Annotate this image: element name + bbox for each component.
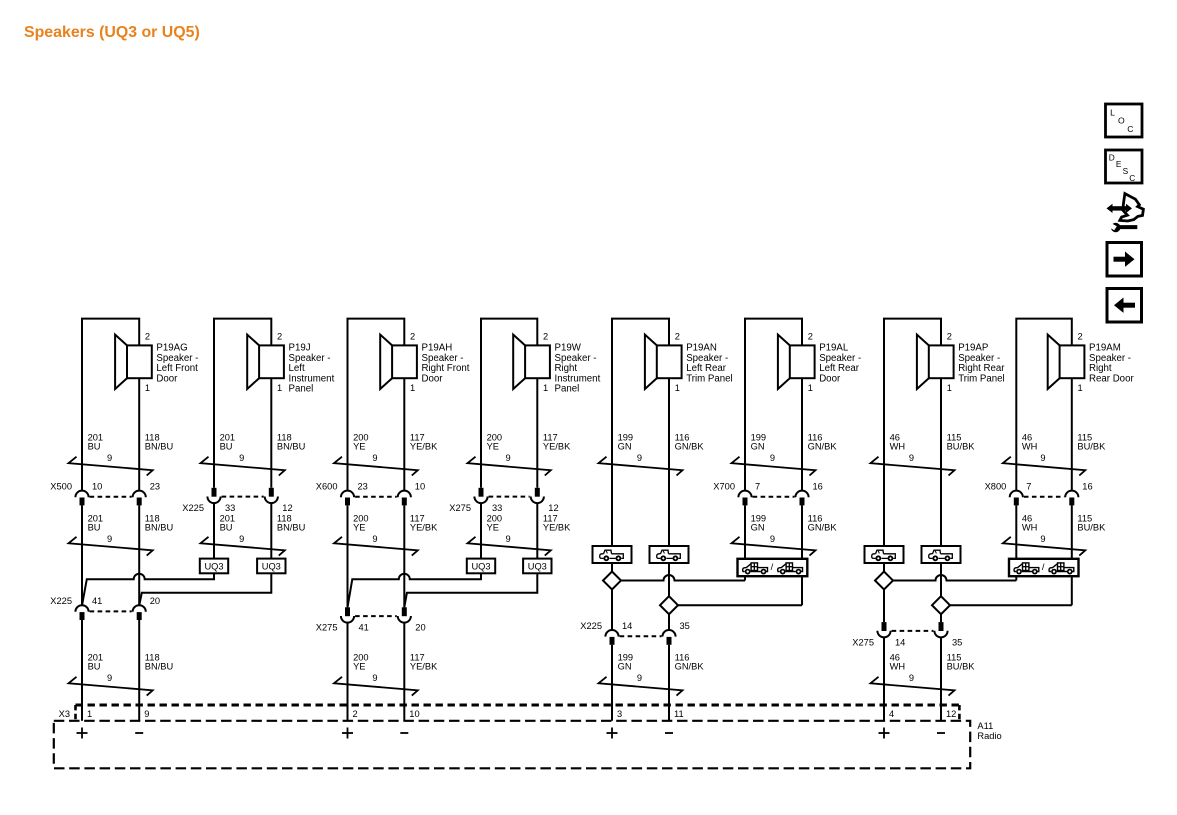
wire 117 YE/BK: P19AH - lead (pin 1)	[403, 378, 405, 491]
polarity +	[607, 728, 618, 739]
wire 46 WH: P19AM + lead (pin 2)	[1016, 319, 1072, 491]
svg-text:UQ3: UQ3	[204, 561, 223, 571]
svg-text:Radio: Radio	[977, 731, 1001, 741]
twisted pair marker 9	[334, 677, 418, 696]
splice (diamond)	[932, 596, 950, 614]
wire labels 201 BU / 118 BN/BU (pair P19J)	[220, 432, 306, 463]
svg-text:9: 9	[909, 453, 914, 463]
wire 116 GN/BK: P19AN - lead (pin 1)	[668, 378, 670, 546]
svg-text:9: 9	[107, 534, 112, 544]
icon: forward arrow box	[1107, 243, 1142, 277]
wire: splice to P19AM + lead (hop over 115 wire)	[893, 575, 1016, 581]
svg-text:YE/BK: YE/BK	[410, 662, 438, 672]
svg-text:9: 9	[372, 534, 377, 544]
twisted pair marker 9 (P19AM)	[1003, 457, 1086, 476]
svg-text:2: 2	[808, 331, 813, 341]
connector X600 pins 23/10	[316, 482, 425, 506]
svg-text:33: 33	[492, 503, 502, 513]
svg-text:BU: BU	[88, 523, 101, 533]
svg-text:9: 9	[637, 673, 642, 683]
title	[24, 24, 200, 41]
twisted pair marker 9	[468, 537, 551, 556]
svg-text:2: 2	[1078, 331, 1083, 341]
twisted pair marker 9 (P19AP)	[871, 457, 955, 476]
svg-text:9: 9	[506, 453, 511, 463]
icon DESC box	[1106, 150, 1143, 183]
twisted pair marker 9 (P19J)	[201, 457, 285, 476]
svg-text:10: 10	[92, 482, 102, 492]
wire segment: truck box to splice	[611, 563, 613, 572]
splice (diamond)	[660, 596, 678, 614]
svg-text:2: 2	[543, 331, 548, 341]
twisted pair marker 9 (P19AG)	[69, 457, 153, 476]
inline connector X3 (dotted line)	[59, 705, 960, 720]
svg-text:X275: X275	[449, 503, 471, 513]
svg-text:12: 12	[946, 709, 956, 719]
twisted pair marker 9 (P19AN)	[599, 457, 683, 476]
svg-text:X275: X275	[316, 623, 338, 633]
wire: UQ3 output to X275 pin 41 (hop over 117 wire)	[348, 573, 482, 607]
wire 115 BU/BK to radio pin 12	[940, 637, 942, 721]
speaker P19W (Speaker - Right Instrument Panel)	[513, 331, 600, 394]
svg-text:YE/BK: YE/BK	[543, 442, 571, 452]
svg-text:YE/BK: YE/BK	[543, 523, 571, 533]
svg-text:BU: BU	[220, 523, 233, 533]
svg-text:2: 2	[277, 331, 282, 341]
svg-text:9: 9	[770, 534, 775, 544]
wire labels 201 BU / 118 BN/BU row2 (pair a)	[88, 513, 174, 544]
svg-text:S: S	[1123, 166, 1129, 176]
connector X275 pins 41/20	[316, 607, 426, 632]
svg-text:2: 2	[675, 331, 680, 341]
svg-text:Door: Door	[422, 373, 444, 384]
twisted pair marker 9	[732, 537, 816, 556]
svg-text:9: 9	[770, 453, 775, 463]
radio pin 4	[889, 709, 894, 719]
option box UQ3	[200, 559, 228, 574]
connector X275 pins 33/12	[449, 488, 558, 513]
connector X275 pins 14/35	[852, 622, 962, 647]
svg-text:YE/BK: YE/BK	[410, 523, 438, 533]
svg-text:1: 1	[947, 383, 952, 393]
wire labels 201 BU / 118 BN/BU (pair P19AG)	[88, 432, 174, 463]
wire 46 WH to radio pin 4	[883, 637, 885, 721]
svg-text:GN/BK: GN/BK	[675, 662, 705, 672]
svg-text:BU/BK: BU/BK	[1077, 442, 1106, 452]
svg-text:GN/BK: GN/BK	[808, 442, 838, 452]
svg-text:BN/BU: BN/BU	[145, 662, 173, 672]
svg-text:2: 2	[145, 331, 150, 341]
wire labels 201 BU / 118 BN/BU row3	[88, 652, 174, 683]
radio pin 2	[353, 709, 358, 719]
vehicle option icon (two crew-cab trucks)	[1009, 559, 1079, 576]
svg-text:14: 14	[895, 637, 905, 647]
svg-text:4: 4	[889, 709, 894, 719]
svg-text:2: 2	[410, 331, 415, 341]
svg-text:9: 9	[1040, 453, 1045, 463]
wire: splice to P19AL + lead (hop over 116 wire)	[621, 575, 745, 581]
wire: splice to P19AL - lead	[678, 576, 802, 605]
svg-text:9: 9	[372, 673, 377, 683]
svg-text:A11: A11	[977, 721, 993, 731]
svg-text:12: 12	[548, 503, 558, 513]
svg-text:O: O	[1118, 116, 1125, 126]
twisted pair marker 9	[201, 537, 285, 556]
svg-text:20: 20	[150, 596, 160, 606]
twisted pair marker 9	[599, 677, 683, 696]
svg-text:WH: WH	[1022, 523, 1038, 533]
vehicle option icon (two crew-cab trucks)	[738, 559, 808, 576]
svg-text:YE: YE	[353, 442, 365, 452]
wire 116 GN/BK below splice	[668, 614, 670, 630]
connector X225 pins 41/20	[50, 596, 160, 620]
svg-text:/: /	[1042, 562, 1045, 573]
wire 116 GN/BK segment below X700	[801, 505, 803, 558]
svg-text:BN/BU: BN/BU	[145, 523, 173, 533]
polarity -	[135, 732, 143, 734]
svg-text:BU/BK: BU/BK	[947, 442, 976, 452]
svg-text:GN/BK: GN/BK	[808, 523, 838, 533]
wire 117 YE/BK: P19W - lead (pin 1)	[536, 378, 538, 488]
svg-text:BU: BU	[220, 442, 233, 452]
speaker P19AN (Speaker - Left Rear Trim Panel)	[645, 331, 733, 393]
twisted pair marker 9	[871, 677, 955, 696]
svg-text:9: 9	[637, 453, 642, 463]
twisted pair marker 9	[69, 677, 153, 696]
speaker P19AM (Speaker - Right Rear Door)	[1048, 331, 1135, 393]
wire 118 BN/BU segment below X225	[270, 503, 272, 559]
polarity -	[665, 732, 673, 734]
icon LOC box	[1106, 104, 1143, 137]
svg-text:YE: YE	[487, 442, 499, 452]
connector X225 pins 33/12	[182, 488, 292, 513]
svg-text:2: 2	[353, 709, 358, 719]
svg-text:3: 3	[617, 709, 622, 719]
speaker P19AP (Speaker - Right Rear Trim Panel)	[917, 331, 1005, 393]
wire 199 GN segment below X700	[744, 505, 746, 558]
svg-text:1: 1	[410, 383, 415, 393]
wire 117 YE/BK segment below X275	[536, 503, 538, 559]
svg-text:1: 1	[87, 709, 92, 719]
svg-text:20: 20	[415, 623, 425, 633]
wire 115 BU/BK segment below X800	[1071, 505, 1073, 558]
svg-text:7: 7	[1026, 482, 1031, 492]
speaker P19AH (Speaker - Right Front Door)	[380, 331, 470, 393]
wire 118 BN/BU: P19J - lead (pin 1)	[270, 378, 272, 488]
svg-text:9: 9	[909, 673, 914, 683]
speaker P19J (Speaker - Left Instrument Panel)	[247, 331, 334, 394]
wire 118 BN/BU: P19AG - lead (pin 1)	[138, 378, 140, 491]
svg-text:X225: X225	[580, 621, 602, 631]
svg-text:UQ3: UQ3	[262, 561, 281, 571]
vehicle option icon (pickup truck)	[593, 546, 632, 563]
wire 116 GN/BK to radio pin 11	[668, 645, 670, 721]
svg-text:C: C	[1129, 173, 1135, 183]
svg-text:23: 23	[358, 482, 368, 492]
svg-text:BU: BU	[88, 662, 101, 672]
wire labels 200 YE / 117 YE/BK row2 (pair a)	[353, 513, 438, 544]
svg-text:16: 16	[1082, 482, 1092, 492]
svg-text:Door: Door	[819, 373, 841, 384]
wire 201 BU to radio pin 1	[81, 620, 83, 721]
wire 200 YE segment below X600	[347, 505, 349, 607]
svg-text:7: 7	[755, 482, 760, 492]
svg-text:BU/BK: BU/BK	[1077, 523, 1106, 533]
wire 115 BU/BK: P19AM - lead (pin 1)	[1071, 378, 1073, 491]
wire labels 200 YE / 117 YE/BK row3	[353, 652, 438, 683]
svg-text:33: 33	[225, 503, 235, 513]
svg-text:UQ3: UQ3	[528, 561, 547, 571]
svg-text:BU: BU	[88, 442, 101, 452]
svg-text:X225: X225	[182, 503, 204, 513]
svg-text:GN: GN	[618, 442, 632, 452]
svg-text:10: 10	[409, 709, 419, 719]
connector X800 pins 7/16	[985, 482, 1093, 506]
wire 115 BU/BK below splice	[940, 614, 942, 622]
svg-text:1: 1	[277, 383, 282, 393]
svg-text:1: 1	[543, 383, 548, 393]
splice (diamond)	[875, 572, 893, 590]
speaker P19AG (Speaker - Left Front Door)	[115, 331, 198, 393]
wire 46 WH: P19AP + lead (pin 2)	[884, 319, 941, 546]
svg-text:YE: YE	[353, 662, 365, 672]
svg-text:L: L	[1110, 107, 1115, 117]
svg-text:1: 1	[145, 383, 150, 393]
svg-text:9: 9	[107, 453, 112, 463]
wire 201 BU segment below X500	[81, 505, 83, 605]
wire 201 BU: P19AG + lead (pin 2)	[82, 319, 139, 491]
polarity +	[342, 728, 353, 739]
svg-text:Trim Panel: Trim Panel	[958, 373, 1004, 384]
svg-text:16: 16	[813, 482, 823, 492]
wire labels 201 BU / 118 BN/BU row2 (pair b)	[220, 513, 306, 544]
wire labels 46 WH / 115 BU/BK (pair P19AP)	[890, 432, 976, 463]
svg-text:X800: X800	[985, 482, 1007, 492]
radio pin 12	[946, 709, 956, 719]
wire labels 46 WH / 115 BU/BK row3	[890, 652, 976, 683]
wire 199 GN: P19AN + lead (pin 2)	[612, 319, 669, 546]
polarity +	[879, 728, 890, 739]
wire 201 BU: P19J + lead (pin 2)	[214, 319, 271, 488]
svg-text:9: 9	[506, 534, 511, 544]
wire: splice to P19AM - lead	[950, 576, 1072, 605]
svg-text:9: 9	[144, 709, 149, 719]
svg-text:UQ3: UQ3	[471, 561, 490, 571]
wire labels 199 GN / 116 GN/BK (pair P19AL)	[751, 432, 838, 463]
svg-text:1: 1	[675, 383, 680, 393]
wire segment: truck box to splice (through hop)	[668, 563, 670, 596]
wire labels 199 GN / 116 GN/BK row3	[618, 652, 705, 683]
svg-text:BN/BU: BN/BU	[277, 442, 305, 452]
radio pin 1	[87, 709, 92, 719]
splice (diamond)	[603, 572, 621, 590]
connector X225 pins 14/35	[580, 621, 690, 645]
wire 200 YE segment below X275	[480, 503, 482, 559]
svg-text:Panel: Panel	[289, 384, 314, 395]
icon: back arrow box	[1107, 289, 1142, 323]
svg-text:2: 2	[947, 331, 952, 341]
wire 116 GN/BK: P19AL - lead (pin 1)	[801, 378, 803, 491]
svg-text:35: 35	[680, 621, 690, 631]
twisted pair marker 9	[1003, 537, 1086, 556]
wire: UQ3 output to X225 pin 41 (hop over 118 wire)	[82, 573, 214, 605]
speaker P19AL (Speaker - Left Rear Door)	[778, 331, 861, 393]
radio pin 9	[144, 709, 149, 719]
wire labels 199 GN / 116 GN/BK row2	[751, 513, 838, 544]
svg-text:41: 41	[359, 623, 369, 633]
svg-text:/: /	[771, 562, 774, 573]
wire 46 WH segment below X800	[1015, 505, 1017, 558]
svg-text:X3: X3	[59, 709, 70, 719]
wire labels 46 WH / 115 BU/BK row2	[1022, 513, 1106, 544]
svg-text:12: 12	[282, 503, 292, 513]
wire: UQ3 output to X225 pin 20	[139, 573, 271, 605]
wire 199 GN to radio pin 3	[611, 645, 613, 721]
vehicle option icon (pickup truck)	[865, 546, 904, 563]
svg-text:Speakers (UQ3 or UQ5): Speakers (UQ3 or UQ5)	[24, 24, 200, 41]
svg-text:9: 9	[239, 453, 244, 463]
svg-text:WH: WH	[890, 442, 906, 452]
twisted pair marker 9 (P19AL)	[732, 457, 816, 476]
connector X700 pins 7/16	[713, 482, 823, 506]
svg-text:Panel: Panel	[555, 384, 580, 395]
wire labels 200 YE / 117 YE/BK row2 (pair b)	[487, 513, 571, 544]
icon: repair instructions (arrows + wrench)	[1107, 194, 1144, 233]
svg-text:1: 1	[808, 383, 813, 393]
option box UQ3	[467, 559, 495, 574]
polarity +	[77, 728, 88, 739]
twisted pair marker 9 (P19AH)	[334, 457, 418, 476]
svg-text:10: 10	[415, 482, 425, 492]
wire labels 199 GN / 116 GN/BK (pair P19AN)	[618, 432, 705, 463]
svg-text:X700: X700	[713, 482, 735, 492]
wire labels 200 YE / 117 YE/BK (pair P19AH)	[353, 432, 438, 463]
option box UQ3	[257, 559, 285, 574]
wire 200 YE to radio pin 2	[347, 622, 349, 721]
svg-text:Door: Door	[156, 373, 178, 384]
svg-text:41: 41	[92, 596, 102, 606]
vehicle option icon (pickup truck)	[922, 546, 961, 563]
svg-text:BU/BK: BU/BK	[947, 662, 976, 672]
svg-text:C: C	[1127, 124, 1133, 134]
radio pin 10	[409, 709, 419, 719]
svg-text:9: 9	[1040, 534, 1045, 544]
svg-text:WH: WH	[890, 662, 906, 672]
wire labels 46 WH / 115 BU/BK (pair P19AM)	[1022, 432, 1106, 463]
svg-text:9: 9	[372, 453, 377, 463]
radio A11 (dashed box)	[54, 721, 1002, 769]
svg-text:WH: WH	[1022, 442, 1038, 452]
svg-text:9: 9	[107, 673, 112, 683]
svg-text:Rear Door: Rear Door	[1089, 373, 1134, 384]
twisted pair marker 9	[334, 537, 418, 556]
wire segment: truck box to splice	[883, 563, 885, 572]
wire 117 YE/BK to radio pin 10	[403, 622, 405, 721]
option box UQ3	[523, 559, 551, 574]
svg-text:Trim Panel: Trim Panel	[686, 373, 732, 384]
svg-text:1: 1	[1078, 383, 1083, 393]
svg-text:14: 14	[622, 621, 632, 631]
svg-text:YE/BK: YE/BK	[410, 442, 438, 452]
svg-text:GN/BK: GN/BK	[675, 442, 705, 452]
polarity -	[937, 732, 945, 734]
connector X500 pins 10/23	[50, 482, 160, 506]
radio pin 11	[674, 709, 684, 719]
radio pin 3	[617, 709, 622, 719]
svg-text:X600: X600	[316, 482, 338, 492]
wire 200 YE: P19W + lead (pin 2)	[481, 319, 537, 488]
svg-text:E: E	[1116, 159, 1122, 169]
svg-text:23: 23	[150, 482, 160, 492]
svg-text:9: 9	[239, 534, 244, 544]
wire: UQ3 output to X275 pin 20	[404, 573, 537, 607]
wire 199 GN: P19AL + lead (pin 2)	[745, 319, 802, 491]
polarity -	[400, 732, 408, 734]
svg-text:BN/BU: BN/BU	[277, 523, 305, 533]
svg-text:BN/BU: BN/BU	[145, 442, 173, 452]
wire 115 BU/BK: P19AP - lead (pin 1)	[940, 378, 942, 546]
svg-text:YE: YE	[353, 523, 365, 533]
wire 201 BU segment below X225	[213, 503, 215, 559]
wire 117 YE/BK segment below X600	[403, 505, 405, 607]
svg-text:11: 11	[674, 709, 684, 719]
wire 200 YE: P19AH + lead (pin 2)	[348, 319, 405, 491]
vehicle option icon (pickup truck)	[650, 546, 689, 563]
twisted pair marker 9	[69, 537, 153, 556]
svg-text:YE: YE	[487, 523, 499, 533]
wire 46 WH below splice	[883, 590, 885, 623]
svg-text:D: D	[1109, 152, 1115, 162]
wire labels 200 YE / 117 YE/BK (pair P19W)	[487, 432, 571, 463]
svg-text:X275: X275	[852, 637, 874, 647]
wire segment: truck box to splice (through hop)	[940, 563, 942, 596]
twisted pair marker 9 (P19W)	[468, 457, 551, 476]
svg-text:GN: GN	[751, 523, 765, 533]
wire 118 BN/BU to radio pin 9	[138, 620, 140, 721]
svg-text:GN: GN	[751, 442, 765, 452]
wire 118 BN/BU segment below X500	[138, 505, 140, 605]
svg-text:GN: GN	[618, 662, 632, 672]
svg-text:X225: X225	[50, 596, 72, 606]
wire 199 GN below splice	[611, 590, 613, 631]
svg-text:X500: X500	[50, 482, 72, 492]
svg-text:35: 35	[952, 637, 962, 647]
